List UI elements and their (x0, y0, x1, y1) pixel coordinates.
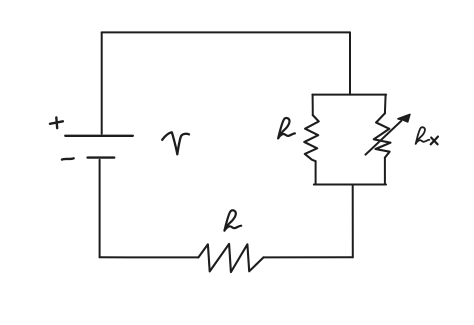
wire right upper (349, 32, 351, 94)
node top of parallel pair (312, 94, 386, 96)
Rx variable arrow head (398, 114, 410, 122)
wire left branch upper (312, 95, 314, 116)
label R (bottom resistor) (224, 210, 241, 230)
wire left branch lower (315, 161, 317, 184)
minus polarity mark (62, 158, 74, 159)
wire right branch upper (384, 95, 387, 114)
wire top (102, 31, 350, 33)
label x subscript of Rx (431, 137, 438, 145)
resistor R bottom (198, 244, 263, 272)
resistor R left branch (304, 115, 318, 161)
wire left lower (99, 160, 101, 257)
wire left upper (101, 32, 103, 133)
resistor Rx zigzag (374, 113, 391, 157)
wire right branch lower (384, 158, 386, 185)
plus polarity mark (50, 117, 63, 128)
wire right lower (352, 185, 354, 258)
Rx variable arrow shaft (366, 121, 402, 155)
battery V positive plate (65, 135, 133, 137)
wire bottom left (100, 256, 199, 258)
label R of Rx (416, 127, 430, 144)
node bottom of parallel pair (314, 184, 386, 186)
wire bottom right (264, 256, 353, 258)
label V (162, 132, 189, 154)
label R (left branch resistor) (278, 118, 295, 138)
battery V negative plate (88, 156, 115, 158)
